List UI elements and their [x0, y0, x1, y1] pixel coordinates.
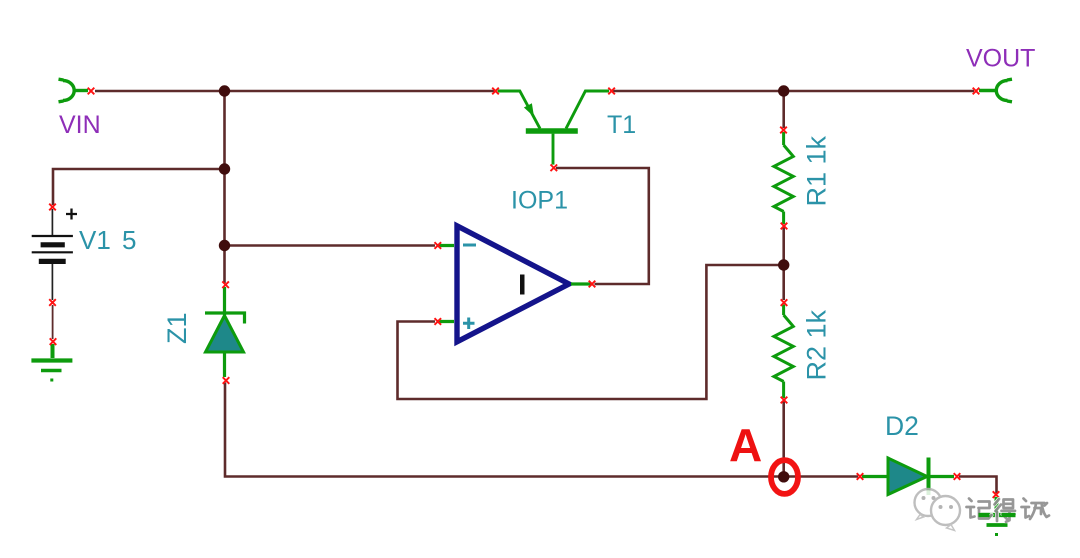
ground right	[979, 497, 1016, 535]
junction top rail at R1	[778, 85, 789, 96]
wire R2 bottom to node A	[782, 401, 785, 477]
junction R1-R2 divider	[778, 259, 789, 270]
wire R1 bottom to R2 top	[782, 227, 785, 300]
diode D2	[862, 458, 954, 496]
terminal VIN	[59, 79, 89, 102]
battery plus sign	[66, 209, 77, 220]
svg-text:VIN: VIN	[59, 111, 101, 139]
svg-text:R1 1k: R1 1k	[802, 135, 832, 206]
svg-text:VOUT: VOUT	[966, 45, 1035, 73]
wire R1 top	[782, 91, 785, 128]
watermark logo bubbles	[915, 489, 961, 531]
pin mark left ground	[50, 338, 57, 345]
pin mark D2 anode	[857, 473, 864, 480]
wire feedback from divider to plus input	[398, 265, 784, 399]
pin mark Z1 cathode	[222, 281, 229, 288]
svg-text:Z1: Z1	[162, 312, 192, 344]
wire vertical VIN column	[223, 91, 226, 283]
wire battery branch	[53, 169, 225, 205]
wire top rail left	[95, 90, 496, 93]
zener diode Z1	[205, 287, 245, 377]
svg-text:IOP1: IOP1	[511, 187, 568, 215]
pin mark battery minus	[49, 299, 56, 306]
resistor R2	[774, 305, 793, 399]
pin mark R1 bottom	[781, 223, 788, 230]
wire bottom rail	[225, 383, 858, 477]
pin mark R2 bottom	[781, 397, 788, 404]
junction top rail at VIN column	[219, 85, 230, 96]
pin mark op-amp inverting input	[435, 242, 442, 249]
svg-text:V1 5: V1 5	[79, 225, 137, 255]
pin mark D2 cathode	[954, 473, 961, 480]
pin mark T1 collector	[608, 88, 615, 95]
pin mark VOUT terminal	[973, 88, 980, 95]
svg-text:R2 1k: R2 1k	[802, 309, 832, 380]
svg-text:D2: D2	[885, 411, 919, 441]
pin mark T1 emitter	[492, 88, 499, 95]
battery V1 plates	[32, 236, 73, 261]
wire D2 to right ground	[959, 477, 997, 494]
pin mark R2 top	[781, 299, 788, 306]
wire battery to ground	[52, 305, 54, 339]
pin mark VIN terminal	[88, 88, 95, 95]
battery V1 lead bottom	[51, 264, 53, 300]
op-amp IOP1	[438, 226, 591, 342]
junction op-amp minus branch	[219, 240, 230, 251]
terminal VOUT	[979, 79, 1012, 102]
pin mark T1 base	[551, 165, 558, 172]
resistor R1	[774, 132, 793, 224]
watermark text 记得诚	[967, 499, 1050, 522]
pin mark op-amp non-inverting input	[435, 318, 442, 325]
pin mark Z1 anode	[223, 377, 230, 384]
pin mark battery plus	[49, 204, 56, 211]
ground left	[31, 344, 72, 380]
pin mark R1 top	[780, 127, 787, 134]
pin mark op-amp output	[589, 281, 596, 288]
node A ring	[771, 460, 798, 494]
wire op-amp output to T1 base	[556, 168, 649, 284]
junction battery branch	[219, 163, 230, 174]
wire to op-amp minus input	[225, 244, 436, 247]
svg-text:A: A	[729, 419, 762, 471]
pin mark right ground	[993, 491, 1000, 498]
svg-text:T1: T1	[607, 111, 636, 139]
transistor T1	[498, 91, 609, 165]
ground right bars over watermark	[979, 515, 1016, 535]
junction node A	[778, 471, 789, 482]
wire top rail right	[611, 90, 974, 93]
battery V1 lead top	[51, 209, 53, 235]
